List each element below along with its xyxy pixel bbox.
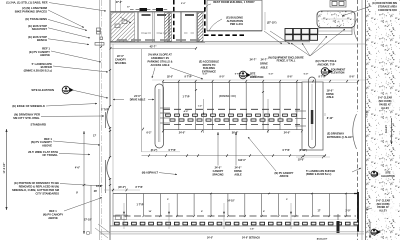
svg-text:8'-10": 8'-10" xyxy=(327,117,334,120)
svg-text:AISLE: AISLE xyxy=(326,96,334,99)
svg-text:8': 8' xyxy=(156,188,157,189)
svg-text:8': 8' xyxy=(263,211,265,213)
left vertical dimension 14-9 xyxy=(6,129,8,210)
svg-text:(ZONING: OC): (ZONING: OC) xyxy=(219,94,236,98)
equipment pad rectangle xyxy=(302,82,323,150)
svg-text:10'-0": 10'-0" xyxy=(298,158,305,161)
svg-text:(27'-10"): (27'-10") xyxy=(267,22,277,25)
svg-text:62: 62 xyxy=(145,33,147,35)
svg-text:ALLEY: ALLEY xyxy=(381,107,389,110)
svg-text:9' TYP: 9' TYP xyxy=(283,150,290,152)
leader xyxy=(48,10,84,28)
svg-text:14'-0": 14'-0" xyxy=(207,237,213,240)
svg-text:(8'-10"): (8'-10") xyxy=(299,150,307,152)
alley driveway curve top xyxy=(354,18,358,40)
site elevation marker right xyxy=(371,171,381,177)
hatched sidewalk/bike area xyxy=(111,13,135,42)
svg-text:17': 17' xyxy=(317,210,321,212)
leader xyxy=(53,141,100,145)
property double lines xyxy=(100,231,364,233)
leader xyxy=(366,208,372,210)
bottom wheel stop curb lines xyxy=(113,219,358,221)
svg-text:ACCESS AISLE: ACCESS AISLE xyxy=(150,63,169,67)
utility pole at bottom xyxy=(337,221,340,233)
svg-text:8' TYP: 8' TYP xyxy=(136,187,143,189)
dimension ticks above bottom row xyxy=(104,189,140,191)
svg-text:CONCRETE PAD: CONCRETE PAD xyxy=(378,9,397,12)
inner lot edge line xyxy=(112,44,114,194)
bottom parking left edge xyxy=(112,194,114,227)
bottom right edge thick xyxy=(357,192,359,232)
wheel stops row B xyxy=(170,119,175,121)
svg-text:ABOVE: ABOVE xyxy=(40,53,50,57)
svg-text:1' TYP: 1' TYP xyxy=(137,204,144,206)
svg-text:24'-7": 24'-7" xyxy=(250,59,258,62)
svg-text:REST ROOM BUILDING, 1 STORY: REST ROOM BUILDING, 1 STORY xyxy=(213,0,255,4)
svg-text:ELEVATION: ELEVATION xyxy=(331,72,345,75)
bottom-left corner converging marks xyxy=(95,228,108,238)
lot edge line to alley xyxy=(323,82,357,84)
dim 43-7 under carport xyxy=(111,47,197,49)
svg-text:SITE ELEVATION: SITE ELEVATION xyxy=(31,88,54,92)
bus stop bench symbol xyxy=(95,43,104,46)
leader xyxy=(49,3,106,11)
center dashed stripe lower xyxy=(163,123,300,125)
ticks on curb line xyxy=(109,69,111,71)
svg-text:2% MAX SLOPE AT: 2% MAX SLOPE AT xyxy=(148,53,172,57)
svg-text:9' TYP: 9' TYP xyxy=(185,77,192,79)
svg-text:DRIVE AISLE: DRIVE AISLE xyxy=(130,98,146,101)
svg-text:CITY STANDARDS: CITY STANDARDS xyxy=(36,192,60,196)
carport stalls bay 2 xyxy=(179,12,181,42)
leader xyxy=(352,168,361,172)
svg-text:9'-0": 9'-0" xyxy=(304,74,309,76)
alley driveway curve mid xyxy=(353,114,357,149)
annotation: clear paved alley lower xyxy=(371,198,397,218)
left planting capsule xyxy=(155,84,164,148)
stall leader ticks xyxy=(195,89,197,90)
svg-text:SIDEWALK, CURB, GUTTER PER SM: SIDEWALK, CURB, GUTTER PER SM xyxy=(12,188,60,192)
svg-text:BIKE PARKING SPACES: BIKE PARKING SPACES xyxy=(15,9,47,13)
property dash-dot line xyxy=(101,0,103,240)
svg-text:9'-0": 9'-0" xyxy=(203,74,208,76)
center parking top edge xyxy=(163,82,302,84)
trash bins symbol xyxy=(97,28,101,31)
svg-text:PARKING STALLS &: PARKING STALLS & xyxy=(148,60,173,64)
leader fan to bins xyxy=(291,43,310,56)
leader xyxy=(209,19,222,31)
leader xyxy=(159,173,177,175)
right capsule pole slot xyxy=(309,77,316,148)
building front wall line xyxy=(207,30,262,32)
wheel stop leaders xyxy=(203,99,205,133)
svg-text:2'-0": 2'-0" xyxy=(367,111,369,116)
demolition dashed line 1 xyxy=(173,0,175,41)
svg-text:4'-6": 4'-6" xyxy=(75,167,80,170)
hatched wall strip 1 xyxy=(165,13,172,42)
svg-text:REMOVED & REPLACED W/ (N): REMOVED & REPLACED W/ (N) xyxy=(19,185,59,189)
svg-text:ENTRANCE @ ALLEY: ENTRANCE @ ALLEY xyxy=(327,136,353,139)
svg-text:AISLE: AISLE xyxy=(260,66,268,69)
svg-text:24'-0": 24'-0" xyxy=(284,131,291,134)
transformer box top xyxy=(330,1,346,8)
svg-text:22'-0": 22'-0" xyxy=(117,54,125,58)
svg-text:BENCH: BENCH xyxy=(37,38,47,42)
hatched wall strip 2 xyxy=(198,13,204,42)
restroom building outline xyxy=(207,0,262,31)
leaders from slope note xyxy=(152,68,155,79)
alley concrete stipple band xyxy=(366,0,400,240)
svg-text:9'-0": 9'-0" xyxy=(269,74,274,76)
center parking bottom edge xyxy=(163,129,302,131)
svg-text:SM CITY STD. DWG.: SM CITY STD. DWG. xyxy=(13,116,40,120)
svg-text:2'-0": 2'-0" xyxy=(181,3,186,5)
street west curb line xyxy=(99,0,101,240)
svg-text:2' TYP: 2' TYP xyxy=(101,109,109,112)
svg-text:CANOPY: CANOPY xyxy=(115,58,126,62)
EV charger bars xyxy=(160,107,170,109)
ticks on bottom row top line xyxy=(210,193,212,194)
site elevation marker center xyxy=(239,71,251,79)
svg-text:ELEVATION: ELEVATION xyxy=(381,175,395,178)
leader xyxy=(59,153,90,154)
canopy edge line xyxy=(141,49,143,152)
svg-text:BUFFER: BUFFER xyxy=(41,65,52,69)
svg-text:TYP: TYP xyxy=(186,100,187,101)
leader xyxy=(53,66,108,72)
svg-text:(1) 24A, (1) STD, (1) SABS, RE: (1) 24A, (1) STD, (1) SABS, REF. xyxy=(6,0,48,4)
svg-text:ALLEY: ALLEY xyxy=(379,210,387,213)
svg-text:(E) BUILDING: (E) BUILDING xyxy=(226,15,243,19)
short dim line y=152 xyxy=(142,151,180,153)
alley flow arrow xyxy=(391,118,393,144)
svg-text:62: 62 xyxy=(160,33,162,35)
bottom curb line xyxy=(110,225,358,227)
top lot horizontal line dark xyxy=(110,41,310,43)
svg-text:ABOVE: ABOVE xyxy=(48,216,58,220)
center stall dividers xyxy=(178,83,180,130)
svg-text:18'-0": 18'-0" xyxy=(167,77,173,79)
leader xyxy=(48,28,90,38)
svg-text:1' TYP: 1' TYP xyxy=(183,96,190,98)
192 dimension line xyxy=(142,155,327,157)
rect below pad xyxy=(318,28,352,35)
svg-text:SPACING: SPACING xyxy=(212,173,223,176)
leader into hatch xyxy=(120,17,131,23)
svg-text:(SMMC 9.28.030 B.2.c): (SMMC 9.28.030 B.2.c) xyxy=(306,173,331,176)
street east curb line with driveway aprons xyxy=(109,0,111,106)
carport bottom line xyxy=(111,41,206,43)
center parking left edge xyxy=(162,83,164,130)
svg-text:2' TYP: 2' TYP xyxy=(97,136,98,137)
svg-text:9' TYP: 9' TYP xyxy=(319,77,326,79)
diagonal leaders right of building xyxy=(264,31,282,44)
svg-text:(N) PV CANOPY: (N) PV CANOPY xyxy=(43,213,64,217)
leader xyxy=(51,51,101,62)
street-side vertical dimension chain xyxy=(83,131,85,234)
svg-text:192'-0": 192'-0" xyxy=(238,159,246,162)
svg-text:(N) ASPHALT: (N) ASPHALT xyxy=(142,170,159,174)
center dashed stripe upper xyxy=(163,108,300,110)
equipment elevation marker xyxy=(321,68,332,76)
svg-text:(SMMC 9.28.030 B.2.c): (SMMC 9.28.030 B.2.c) xyxy=(24,69,52,73)
building alteration dashed outline xyxy=(204,0,206,35)
alley curb line xyxy=(361,0,363,240)
ticks above carport xyxy=(115,0,117,12)
svg-text:9' TYP: 9' TYP xyxy=(169,150,176,152)
svg-text:PER A-201: PER A-201 xyxy=(230,22,244,26)
bottom dashed stripe xyxy=(113,215,356,217)
leader xyxy=(46,104,97,107)
svg-text:9': 9' xyxy=(286,199,288,201)
svg-text:(E) EDGE OF SIDEWALK: (E) EDGE OF SIDEWALK xyxy=(12,104,45,108)
alley vertical label xyxy=(383,120,390,138)
stall dimension ticks row xyxy=(152,79,365,81)
svg-text:9' TYP: 9' TYP xyxy=(235,74,242,76)
arrow down at alley bottom xyxy=(369,222,371,238)
leaders up from labels xyxy=(217,132,219,166)
alley west edge line xyxy=(365,0,367,240)
svg-text:DRIVE: DRIVE xyxy=(260,62,268,65)
stall header labels bay1 xyxy=(142,14,151,16)
svg-text:8'-6": 8'-6" xyxy=(288,77,293,79)
svg-text:17': 17' xyxy=(127,6,130,8)
svg-text:FENCE, 8' TALL: FENCE, 8' TALL xyxy=(277,60,296,63)
svg-text:REF 1: REF 1 xyxy=(49,209,57,213)
annotation: rod return bin storage xyxy=(376,0,399,13)
svg-text:AISLE: AISLE xyxy=(234,173,242,176)
svg-text:24'-7": 24'-7" xyxy=(261,58,269,61)
site elevation marker bottom right xyxy=(371,229,381,235)
carport roof dashed edge with PV panels xyxy=(130,9,168,11)
bottom stall dividers xyxy=(126,194,128,216)
svg-text:8'-6": 8'-6" xyxy=(350,77,355,79)
svg-text:36'-0": 36'-0" xyxy=(232,131,239,134)
svg-text:OF TRAVEL: OF TRAVEL xyxy=(42,153,58,157)
pole inside capsule xyxy=(311,84,313,140)
svg-text:SIGN POST: SIGN POST xyxy=(32,27,48,31)
svg-text:9': 9' xyxy=(76,192,78,195)
bottom parking top edge xyxy=(113,193,358,195)
svg-text:ABOVE: ABOVE xyxy=(280,175,289,178)
svg-text:1'-6": 1'-6" xyxy=(250,229,254,231)
svg-text:4'-0": 4'-0" xyxy=(184,110,189,113)
stall mid dashes bay1 xyxy=(141,32,145,34)
svg-text:14'-10": 14'-10" xyxy=(227,199,235,202)
svg-text:43'-7": 43'-7" xyxy=(150,45,158,48)
leader xyxy=(72,90,108,98)
svg-text:8': 8' xyxy=(201,211,203,213)
svg-text:27'-0": 27'-0" xyxy=(116,1,123,4)
svg-text:(8'-2"): (8'-2") xyxy=(151,150,158,152)
refuse pad stippled rounded rect xyxy=(317,11,355,28)
leader xyxy=(48,39,89,45)
svg-text:ASSEMBLY EV: ASSEMBLY EV xyxy=(151,56,170,60)
leader xyxy=(342,6,371,16)
bin grid 4x2 xyxy=(285,29,293,35)
pad inner line xyxy=(321,18,350,20)
carport top wall line xyxy=(111,11,206,13)
svg-text:6'-2": 6'-2" xyxy=(147,133,152,135)
svg-text:1'-2": 1'-2" xyxy=(198,106,202,108)
leader xyxy=(41,115,104,117)
svg-text:(16'-0"): (16'-0") xyxy=(118,187,126,189)
svg-text:ABOVE: ABOVE xyxy=(42,144,52,148)
leader xyxy=(60,184,102,187)
svg-text:9'-0": 9'-0" xyxy=(252,77,257,79)
annotation: clear paved alley upper xyxy=(373,96,397,109)
top lot horizontal line light xyxy=(110,43,365,45)
carport bottom labels xyxy=(117,39,127,41)
svg-text:9': 9' xyxy=(167,199,169,201)
svg-text:STANDARD: STANDARD xyxy=(31,122,47,126)
svg-text:9'-0": 9'-0" xyxy=(220,77,225,79)
svg-text:27'-10": 27'-10" xyxy=(84,219,92,222)
bus stop sign post symbol xyxy=(100,37,103,40)
EV stall dashes left of pad xyxy=(295,110,306,112)
svg-text:28': 28' xyxy=(94,190,98,193)
carport stall dividers bay 1 xyxy=(136,12,138,42)
svg-text:ANCHOR, TYP: ANCHOR, TYP xyxy=(317,63,335,66)
svg-text:24'-0" SETBACK: 24'-0" SETBACK xyxy=(242,237,260,240)
leader xyxy=(248,137,276,171)
svg-text:14'-9 1/2": 14'-9 1/2" xyxy=(3,162,6,174)
driveway apron edges xyxy=(105,112,107,128)
svg-text:16': 16' xyxy=(149,211,152,213)
bike parking marks xyxy=(115,24,120,28)
svg-text:ALLEY: ALLEY xyxy=(385,125,388,134)
svg-text:2'-0": 2'-0" xyxy=(346,210,351,212)
bottom wheel stops xyxy=(115,222,120,225)
wheel stop leader verticals xyxy=(123,203,125,229)
alley dashed centerline xyxy=(357,0,359,112)
svg-text:ALTERATION: ALTERATION xyxy=(227,19,243,23)
svg-text:(E) PORTION OF DRIVEWAY TO BE: (E) PORTION OF DRIVEWAY TO BE xyxy=(14,181,59,185)
leader xyxy=(64,198,102,212)
door swing arc xyxy=(206,4,212,10)
wheel stops row A xyxy=(166,114,171,116)
svg-text:13'-6": 13'-6" xyxy=(96,185,103,188)
leader xyxy=(48,19,87,30)
accessible stall boxes bottom left xyxy=(116,215,121,220)
svg-text:SPACING: SPACING xyxy=(115,61,127,65)
svg-text:24'-0": 24'-0" xyxy=(179,131,186,134)
drive aisle dim arrows xyxy=(113,99,124,101)
svg-text:(E) TRASH BINS: (E) TRASH BINS xyxy=(25,17,47,21)
